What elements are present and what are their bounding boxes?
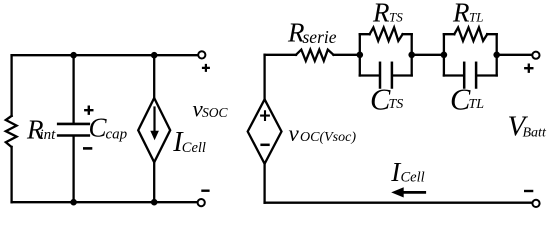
svg-text:TL: TL: [469, 97, 485, 112]
svg-text:TS: TS: [389, 97, 404, 112]
svg-text:R: R: [372, 0, 390, 27]
svg-text:int: int: [40, 127, 57, 143]
svg-text:Cell: Cell: [182, 140, 206, 156]
svg-text:SOC: SOC: [202, 105, 228, 120]
svg-text:OC(Vsoc): OC(Vsoc): [300, 130, 356, 145]
svg-text:serie: serie: [303, 27, 337, 47]
svg-text:Cell: Cell: [401, 169, 425, 185]
svg-text:R: R: [452, 0, 470, 27]
svg-text:Batt: Batt: [523, 125, 547, 140]
svg-text:cap: cap: [106, 126, 128, 142]
svg-text:v: v: [289, 121, 300, 146]
svg-text:TL: TL: [469, 9, 483, 24]
svg-text:TS: TS: [389, 9, 403, 24]
